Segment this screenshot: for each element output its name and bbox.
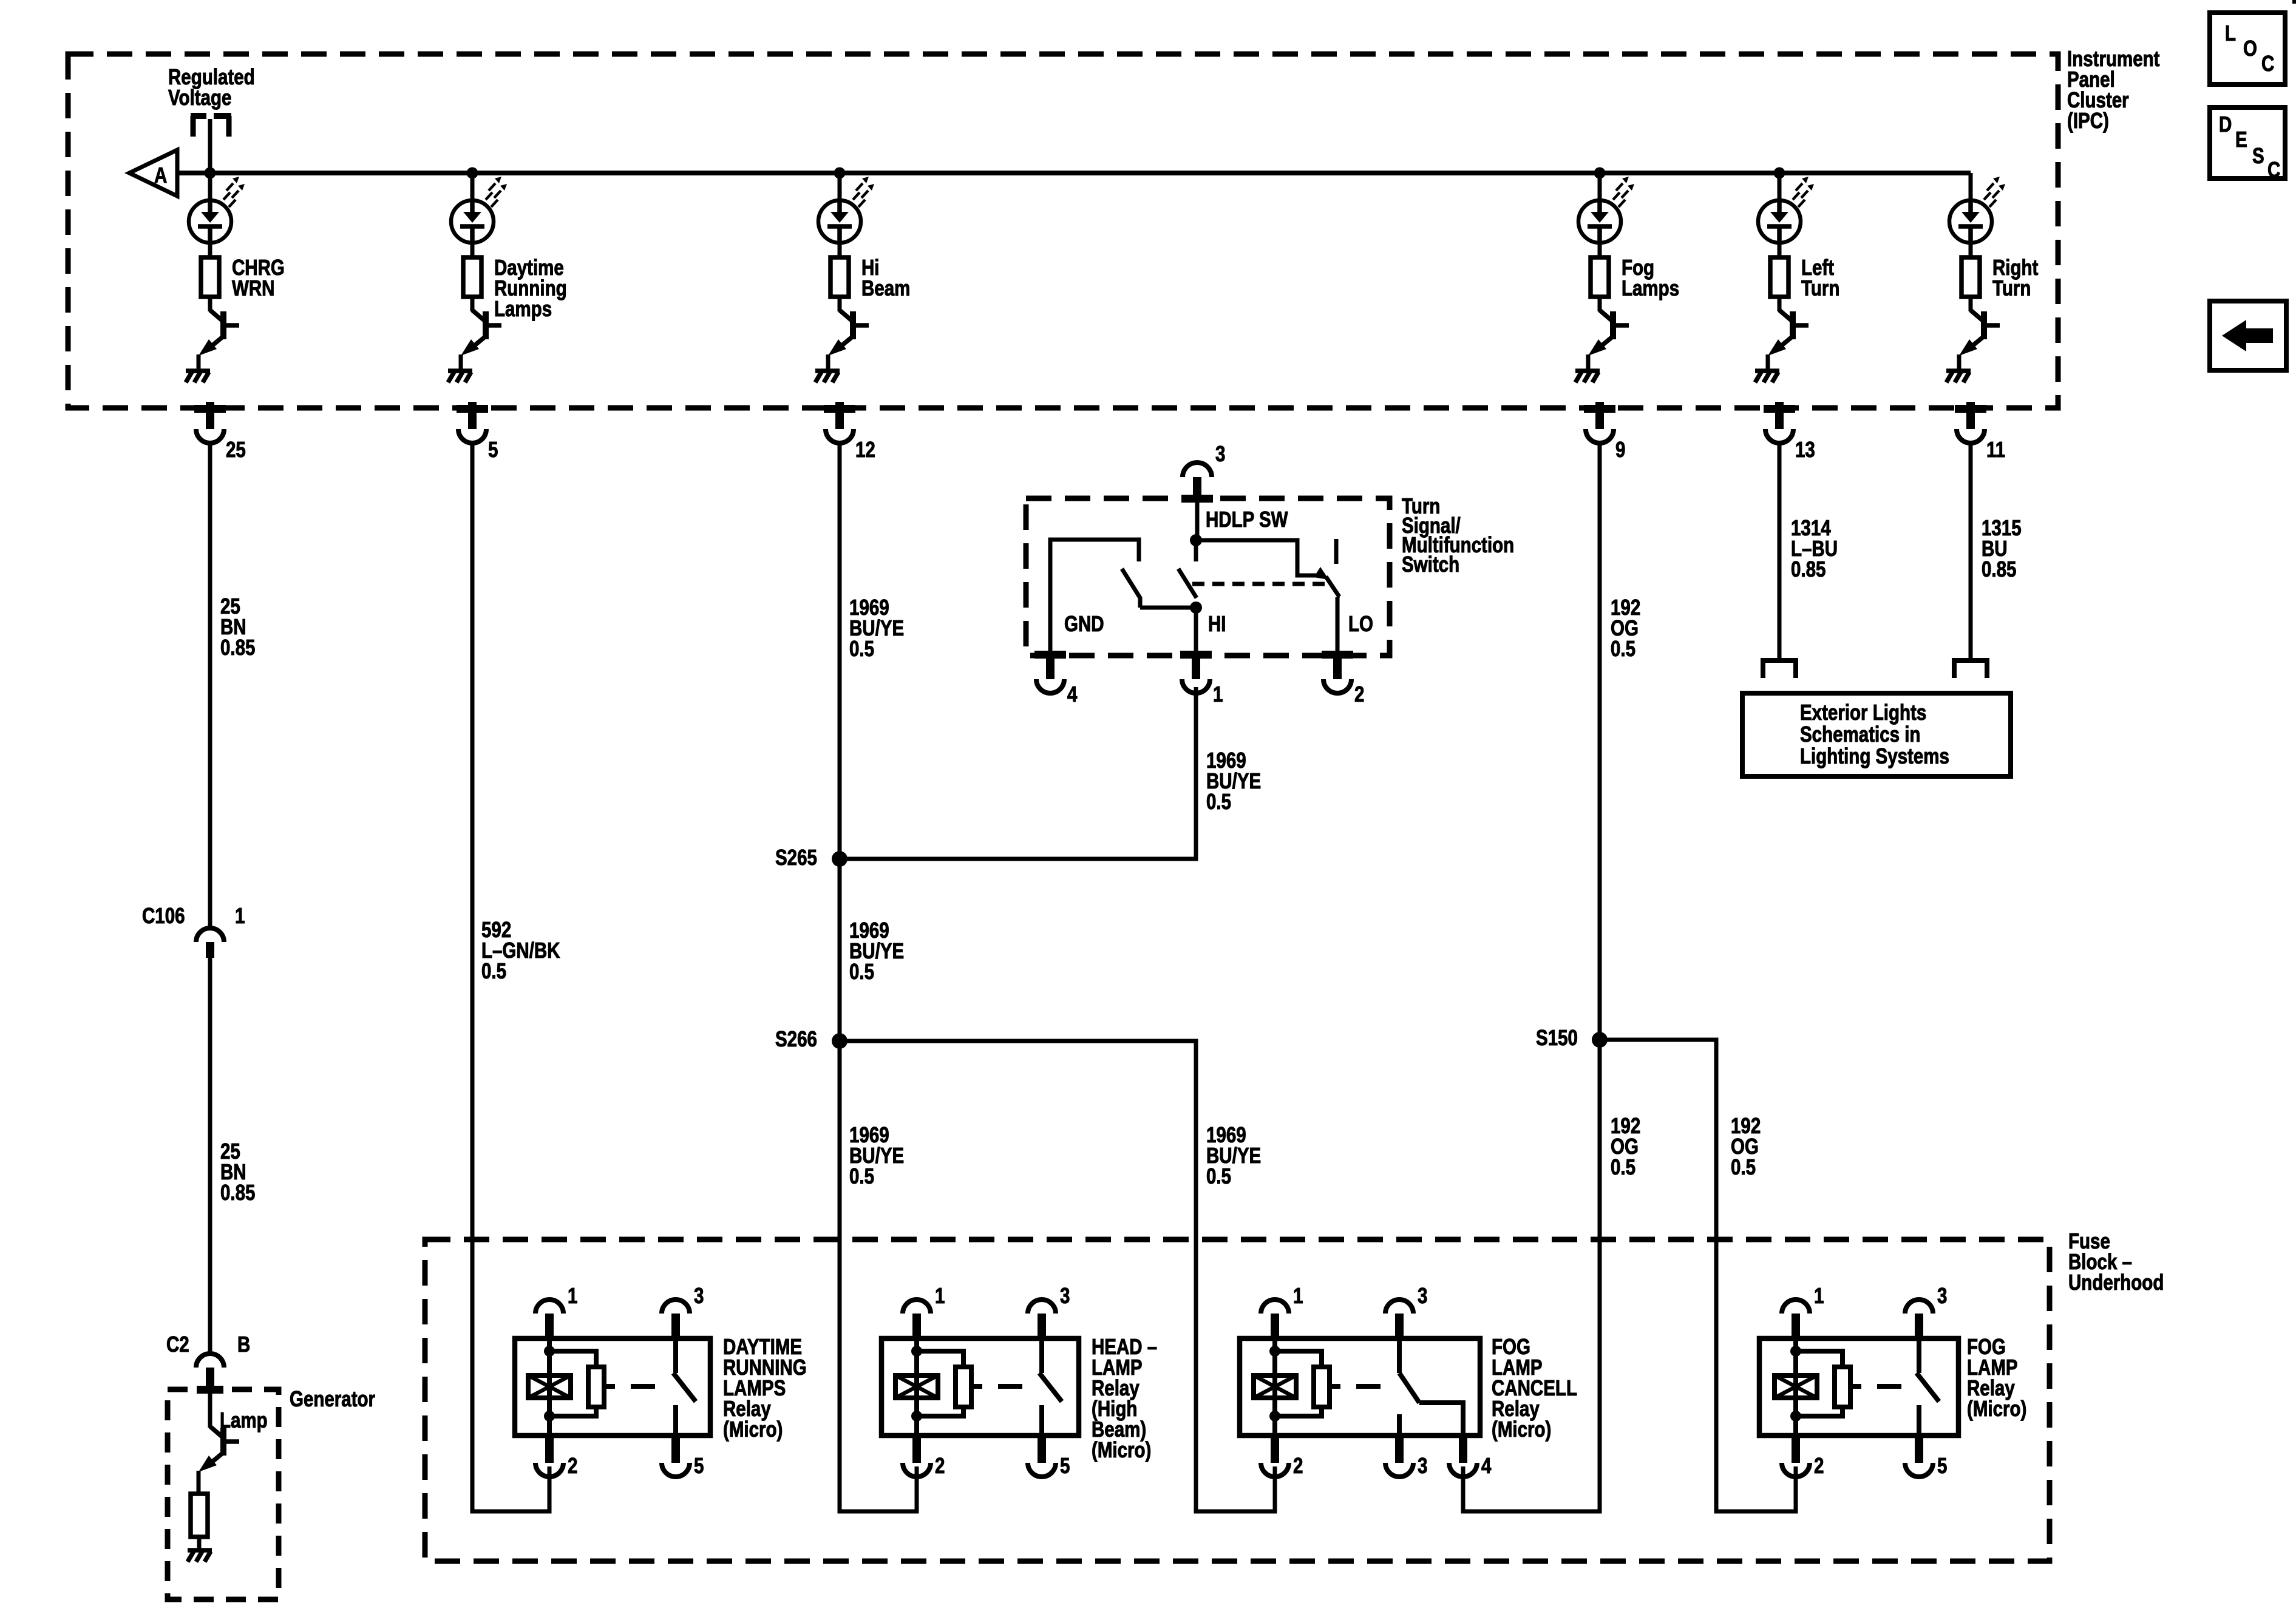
svg-text:5: 5 (488, 437, 498, 461)
wire label 1969 BU/YE 0.5 (headlamp) (849, 1122, 904, 1188)
svg-text:3: 3 (1418, 1453, 1427, 1477)
switch pin number 1 (1213, 682, 1223, 706)
Generator dashed box (168, 1389, 279, 1599)
wire label 1969 BU/YE 0.5 (HI) (1206, 748, 1261, 813)
CANCEL relay pin 3 bottom number (1418, 1453, 1427, 1477)
svg-text:Lamp: Lamp (220, 1408, 268, 1432)
wire regulated voltage to bus (208, 119, 212, 173)
HEAD relay pin 5 number (1060, 1453, 1070, 1477)
IPC connector pin 25 (194, 405, 226, 413)
DRL relay pin 3 number (694, 1283, 704, 1307)
indicator lamp circuit Daytime Running Lamps (470, 173, 475, 202)
wire LO blade to pin 2 (1336, 597, 1340, 653)
pin number 9 (1615, 437, 1625, 461)
bus junction dot x=346 (205, 168, 216, 179)
generator internal resistor (191, 1494, 208, 1537)
LOC icon box (2210, 13, 2285, 84)
svg-text:1: 1 (235, 903, 245, 927)
wire HI junction to pin 1 (1194, 608, 1198, 653)
HEAD relay pin 3 number (1060, 1283, 1070, 1307)
IPC connector pin 12 (824, 405, 855, 413)
svg-text:9: 9 (1615, 437, 1625, 461)
HEAD relay pin 3 connector (1038, 1314, 1046, 1341)
wire S150 to fog cancel pin 4 (1463, 1040, 1600, 1511)
switch blade common wire (1140, 606, 1196, 610)
wire LO blade elbow (1337, 595, 1339, 597)
svg-text:25: 25 (226, 437, 246, 461)
svg-text:2: 2 (1293, 1453, 1303, 1477)
generator lamp driver transistor (210, 1426, 223, 1437)
IPC connector pin 5 (457, 405, 488, 413)
wire label 1314 L-BU 0.85 (1791, 515, 1838, 581)
HEAD relay pin 5 connector (1038, 1436, 1046, 1463)
scan artifact tick top-right corner (2292, 0, 2296, 4)
svg-text:1: 1 (935, 1283, 945, 1307)
Lamp label (220, 1408, 268, 1432)
bus source triangle A (129, 150, 177, 196)
label S265 (775, 845, 817, 869)
svg-text:E: E (2235, 127, 2247, 151)
splice S150 (1592, 1032, 1608, 1048)
IPC connector pin 13 (1764, 405, 1795, 413)
svg-text:S266: S266 (775, 1026, 817, 1051)
CANCEL relay pin 4 number (1481, 1453, 1492, 1477)
wire label 1969 BU/YE 0.5 (cancel) (1206, 1122, 1261, 1188)
switch pin 3 connector (1181, 495, 1213, 503)
svg-text:2: 2 (568, 1453, 577, 1477)
DRL relay pin 2 number (568, 1453, 577, 1477)
Regulated Voltage label (168, 64, 255, 109)
HEAD relay pin 1 number (935, 1283, 945, 1307)
indicator lamp circuit Fog Lamps (1598, 173, 1602, 202)
svg-text:2: 2 (935, 1453, 945, 1477)
Fuse Block label (2068, 1229, 2164, 1294)
svg-text:LO: LO (1348, 611, 1373, 636)
wire label 192 OG 0.5 (left) (1611, 1113, 1640, 1179)
switch GND blade (1122, 569, 1140, 608)
FOG relay pin 2 connector (1792, 1436, 1800, 1463)
wire HDLP SW to junction (1195, 499, 1200, 540)
wire S265 to switch HI pin (840, 687, 1196, 859)
svg-text:3: 3 (1060, 1283, 1070, 1307)
switch HI blade (1178, 569, 1197, 598)
svg-text:S150: S150 (1536, 1025, 1578, 1049)
label terminal B of C2 (237, 1332, 250, 1356)
svg-text:13: 13 (1795, 437, 1815, 461)
svg-text:11: 11 (1986, 437, 2005, 461)
switch LO fixed contact (1334, 539, 1339, 564)
switch bottom connector pin 1 (1180, 651, 1212, 659)
FOG relay pin 5 number (1937, 1453, 1947, 1477)
svg-text:1: 1 (1293, 1283, 1303, 1307)
wire pin 11 down (1969, 444, 1973, 660)
label S266 (775, 1026, 817, 1051)
label terminal 1 of C106 (235, 903, 245, 927)
wire C2 into generator (208, 1388, 212, 1428)
terminal symbol right (1954, 660, 1987, 678)
bus junction dot x=1383 (834, 168, 846, 179)
switch bottom connector pin 4 (1034, 651, 1066, 659)
wire S266 to head lamp relay (840, 1041, 917, 1511)
wire label 1969 BU/YE 0.5 (pin12) (849, 595, 904, 660)
svg-text:D: D (2219, 112, 2232, 136)
wire label 25 BN 0.85 (upper) (220, 594, 255, 659)
DRL relay pin 5 connector (671, 1436, 680, 1463)
terminal symbol left (1763, 660, 1796, 678)
generator ground (188, 1548, 212, 1553)
indicator lamp circuit Hi Beam (838, 173, 842, 202)
CANCEL relay pin 3 bottom connector (1395, 1436, 1404, 1463)
svg-text:C106: C106 (142, 903, 185, 927)
regulated voltage symbol (191, 113, 206, 119)
HEAD LAMP relay (High Beam) (881, 1338, 1079, 1436)
svg-text:Generator: Generator (290, 1386, 375, 1411)
DRL relay pin 3 connector (671, 1314, 680, 1341)
switch junction node (1190, 534, 1202, 546)
Exterior Lights reference box (1742, 693, 2011, 776)
DRL relay pin 2 connector (545, 1436, 554, 1463)
svg-text:3: 3 (1418, 1283, 1427, 1307)
DESC letters (2219, 112, 2232, 136)
wire label 1969 BU/YE 0.5 (mid) (849, 918, 904, 983)
pin number 12 (855, 437, 875, 461)
DRL relay label (723, 1334, 807, 1441)
switch bottom connector pin 2 (1322, 651, 1353, 659)
DRL relay pin 1 connector (545, 1314, 554, 1341)
svg-text:5: 5 (1937, 1453, 1947, 1477)
svg-text:5: 5 (694, 1453, 704, 1477)
HEAD relay pin 2 number (935, 1453, 945, 1477)
CANCEL relay pin 3 top connector (1395, 1314, 1404, 1341)
switch LO drive arrowhead (1314, 567, 1329, 580)
switch name label (1402, 493, 1514, 576)
pin number 5 (488, 437, 498, 461)
IPC connector pin 11 (1955, 405, 1986, 413)
label Right Turn (1992, 255, 2038, 300)
Instrument Panel Cluster (IPC) dashed box (68, 54, 2058, 408)
svg-text:12: 12 (855, 437, 875, 461)
DRL relay pin 5 number (694, 1453, 704, 1477)
letter A (154, 163, 167, 187)
switch pin number 4 (1067, 682, 1078, 706)
svg-text:1: 1 (1814, 1283, 1824, 1307)
svg-text:A: A (154, 163, 167, 187)
CANCEL relay pin 3 top number (1418, 1283, 1427, 1307)
indicator lamp circuit Right Turn (1969, 173, 1973, 202)
CANCEL relay pin 2 number (1293, 1453, 1303, 1477)
HDLP SW label (1206, 507, 1288, 531)
switch HI fixed contact (1194, 540, 1198, 561)
pin number 13 (1795, 437, 1815, 461)
bus junction dot x=2931 (1774, 168, 1785, 179)
wire label 192 OG 0.5 (pin 9) (1611, 595, 1640, 660)
pin number 11 (1986, 437, 2005, 461)
CANCEL relay pin 1 number (1293, 1283, 1303, 1307)
HEAD relay pin 2 connector (912, 1436, 921, 1463)
switch pin 3 number (1215, 441, 1225, 466)
wire pin 13 down (1778, 444, 1782, 660)
GND label (1064, 611, 1104, 636)
switch linkage dotted line (1192, 582, 1327, 586)
svg-text:L: L (2225, 21, 2236, 45)
HEAD relay pin 1 connector (912, 1314, 921, 1341)
wire S266 branch to fog cancel relay (840, 1041, 1275, 1511)
FOG LAMP CANCELL relay (1240, 1338, 1480, 1436)
DAYTIME RUNNING LAMPS relay K-DRL (515, 1338, 710, 1436)
LOC letters (2225, 21, 2236, 45)
label S150 (1536, 1025, 1578, 1049)
Exterior Lights reference text (1800, 700, 1949, 768)
Turn Signal/Multifunction Switch dashed box (1026, 498, 1390, 656)
wire S150 branch to fog lamp relay (1600, 1040, 1796, 1511)
FOG LAMP relay (1759, 1338, 1958, 1436)
IPC name label (2067, 46, 2160, 132)
switch LO blade (1326, 577, 1339, 597)
wire pin 9 to S150 (1598, 444, 1602, 1040)
wire S265 to S266 (838, 859, 842, 1041)
svg-text:2: 2 (1354, 682, 1364, 706)
splice S265 (832, 851, 847, 867)
svg-text:LeftTurn: LeftTurn (1801, 255, 1839, 300)
indicator lamp circuit Left Turn (1778, 173, 1782, 202)
FOG relay pin 1 connector (1792, 1314, 1800, 1341)
Generator label (290, 1386, 375, 1411)
wire label 25 BN 0.85 (lower) (220, 1139, 255, 1204)
svg-text:B: B (237, 1332, 250, 1356)
svg-text:S265: S265 (775, 845, 817, 869)
FOG relay pin 2 number (1814, 1453, 1824, 1477)
IPC connector pin 9 (1584, 405, 1615, 413)
svg-text:C: C (2261, 51, 2274, 75)
HEAD relay label (1092, 1334, 1157, 1462)
back arrow (2222, 320, 2273, 351)
label Daytime Running Lamps (494, 255, 567, 320)
LO label (1348, 611, 1373, 636)
label C2 (166, 1332, 189, 1356)
connector C106 (196, 928, 224, 942)
svg-text:1: 1 (1213, 682, 1223, 706)
CANCEL relay pin 2 connector (1271, 1436, 1279, 1463)
splice S266 (832, 1033, 847, 1049)
label Left Turn (1801, 255, 1839, 300)
svg-text:GND: GND (1064, 611, 1104, 636)
svg-text:HI: HI (1208, 611, 1226, 636)
svg-text:2: 2 (1814, 1453, 1824, 1477)
svg-text:1: 1 (568, 1283, 577, 1307)
Fuse Block - Underhood dashed box (425, 1239, 2050, 1561)
bus junction dot x=778 (467, 168, 478, 179)
svg-text:O: O (2243, 36, 2257, 60)
switch LO drive wire (1196, 540, 1325, 575)
wire label 592 L-GN/BK 0.5 (481, 917, 560, 983)
FOG relay pin 1 number (1814, 1283, 1824, 1307)
FOG relay label (1967, 1334, 2026, 1420)
svg-text:C: C (2267, 157, 2280, 181)
svg-text:3: 3 (1937, 1283, 1947, 1307)
FOG relay pin 3 number (1937, 1283, 1947, 1307)
svg-text:S: S (2252, 143, 2264, 168)
indicator lamp circuit CHRG WRN (208, 173, 212, 202)
switch HI output junction (1190, 602, 1202, 614)
FOG relay pin 5 connector (1915, 1436, 1923, 1463)
bus junction dot x=2635 (1594, 168, 1606, 179)
label C106 (142, 903, 185, 927)
wire pin 5 to fuse block (472, 444, 549, 1511)
svg-text:3: 3 (694, 1283, 704, 1307)
svg-text:4: 4 (1481, 1453, 1492, 1477)
CANCEL relay pin 1 connector (1271, 1314, 1279, 1341)
label CHRG WRN (232, 255, 285, 300)
pin number 25 (226, 437, 246, 461)
voltage bus wire (177, 171, 1971, 175)
DESC icon box (2210, 107, 2285, 178)
connector C2 (196, 1354, 224, 1368)
wire transistor to resistor (197, 1471, 201, 1496)
switch pin number 2 (1354, 682, 1364, 706)
svg-text:4: 4 (1067, 682, 1078, 706)
switch GND wire (1050, 540, 1139, 653)
wire resistor to ground (197, 1537, 202, 1550)
svg-text:HDLP SW: HDLP SW (1206, 507, 1288, 531)
CANCEL relay pin 4 connector (1459, 1436, 1467, 1463)
svg-text:C2: C2 (166, 1332, 189, 1356)
CANCEL relay label (1492, 1334, 1577, 1441)
wire C106 to C2 (208, 958, 212, 1354)
svg-text:3: 3 (1215, 441, 1225, 466)
HI label (1208, 611, 1226, 636)
wire pin 25 to C106 (208, 444, 212, 929)
wire pin 12 to S265 (838, 444, 842, 859)
back arrow icon box (2210, 301, 2286, 370)
label Fog Lamps (1622, 255, 1679, 300)
DRL relay pin 1 number (568, 1283, 577, 1307)
wire label 1315 BU 0.85 (1982, 515, 2022, 581)
svg-text:5: 5 (1060, 1453, 1070, 1477)
label Hi Beam (861, 255, 910, 300)
wire label 192 OG 0.5 (right) (1731, 1113, 1761, 1179)
FOG relay pin 3 connector (1915, 1314, 1923, 1341)
